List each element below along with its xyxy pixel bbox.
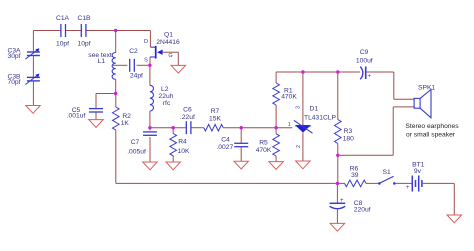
svg-text:30pf: 30pf <box>7 53 20 60</box>
svg-text:C4: C4 <box>221 136 230 143</box>
svg-text:Q1: Q1 <box>164 32 173 39</box>
svg-text:39: 39 <box>351 172 359 179</box>
svg-text:G: G <box>168 53 172 59</box>
svg-text:SPK1: SPK1 <box>418 85 435 92</box>
svg-text:.22uf: .22uf <box>180 114 195 121</box>
svg-text:10pf: 10pf <box>56 41 69 48</box>
svg-text:15K: 15K <box>209 116 221 123</box>
svg-text:100uf: 100uf <box>356 58 373 65</box>
svg-text:24pf: 24pf <box>130 73 143 80</box>
svg-text:Stereo earphones: Stereo earphones <box>405 123 459 130</box>
svg-text:R4: R4 <box>178 139 187 146</box>
svg-text:R3: R3 <box>344 128 353 135</box>
svg-text:+: + <box>406 185 410 191</box>
svg-text:C6: C6 <box>183 107 192 114</box>
svg-text:TL431CLP: TL431CLP <box>304 114 337 121</box>
svg-text:C9: C9 <box>360 49 369 56</box>
svg-text:R2: R2 <box>122 113 131 120</box>
svg-text:L2: L2 <box>161 86 169 93</box>
svg-text:C7: C7 <box>131 139 140 146</box>
svg-text:C1B: C1B <box>77 15 91 22</box>
svg-text:.005uf: .005uf <box>127 148 146 155</box>
svg-text:220uf: 220uf <box>354 207 371 214</box>
svg-text:9v: 9v <box>414 168 422 175</box>
svg-text:C1A: C1A <box>56 15 70 22</box>
svg-text:22uh: 22uh <box>159 93 174 100</box>
svg-text:D: D <box>144 39 148 45</box>
svg-text:180: 180 <box>343 135 354 142</box>
svg-text:1: 1 <box>288 122 291 128</box>
svg-text:C2: C2 <box>129 48 138 55</box>
svg-text:470K: 470K <box>281 94 297 101</box>
svg-text:S: S <box>144 57 148 63</box>
svg-text:D1: D1 <box>310 106 319 113</box>
svg-text:10pf: 10pf <box>77 41 90 48</box>
svg-text:2N4416: 2N4416 <box>156 39 180 46</box>
svg-text:10K: 10K <box>178 148 190 155</box>
svg-text:rfc: rfc <box>163 100 171 107</box>
svg-text:R7: R7 <box>211 108 220 115</box>
svg-text:R5: R5 <box>259 139 268 146</box>
svg-text:70pf: 70pf <box>7 79 20 86</box>
svg-text:.0027: .0027 <box>216 144 233 151</box>
svg-text:470K: 470K <box>256 147 272 154</box>
svg-text:.001uf: .001uf <box>67 112 86 119</box>
svg-text:2: 2 <box>296 145 302 148</box>
svg-text:3: 3 <box>296 106 302 109</box>
svg-text:S1: S1 <box>383 169 391 176</box>
svg-text:1K: 1K <box>121 120 130 127</box>
svg-text:+: + <box>368 74 372 80</box>
svg-text:or small speaker: or small speaker <box>406 132 456 139</box>
svg-text:+: + <box>340 198 344 204</box>
svg-text:L1: L1 <box>98 58 106 65</box>
